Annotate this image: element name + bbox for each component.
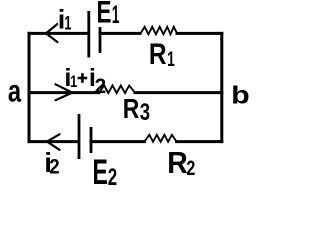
svg-text:2: 2 [49,155,59,178]
resistor R1 zigzag [141,27,177,35]
label i1+i2 : plus sign (drawn) [78,73,88,83]
svg-text:a: a [8,73,22,108]
svg-text:R: R [123,94,140,124]
wire top-left: rail to battery E1 [29,32,88,35]
svg-text:E: E [97,0,112,29]
arrow i2 (points left, bottom wire) [47,134,60,150]
svg-text:E: E [93,153,108,188]
right rail (node b column) [220,33,223,141]
svg-text:1: 1 [64,13,71,34]
svg-text:1: 1 [167,47,175,71]
battery E1 long plate [87,11,90,58]
svg-text:1: 1 [112,2,120,29]
wire bottom-left: rail to battery E2 [29,140,78,143]
battery E2 short plate [90,127,93,153]
svg-text:3: 3 [140,99,151,126]
svg-text:2: 2 [186,157,195,181]
wire middle-right: R3 to right rail [135,91,222,94]
resistor R3 zigzag [99,86,135,94]
battery E2 long plate [78,114,81,159]
svg-text:2: 2 [95,75,107,98]
left rail (node a column) [28,33,31,141]
battery E1 short plate [99,27,102,53]
svg-text:2: 2 [108,164,117,188]
svg-text:R: R [149,38,167,71]
resistor R2 zigzag [145,135,177,142]
arrow i1 (points left, top wire) [46,24,58,42]
wire top-mid: battery E1 to R1 [100,32,140,35]
svg-text:R: R [167,146,188,180]
wire bottom-right: R2 to right rail [177,140,222,143]
wire bottom-mid: battery E2 to R2 [91,140,145,143]
wire top-right: R1 to right rail [177,32,222,35]
arrow i1+i2 (points right, middle wire) [56,84,73,100]
svg-text:b: b [231,81,250,109]
wire middle-left: rail to R3 [29,91,99,94]
svg-text:1: 1 [70,74,77,92]
